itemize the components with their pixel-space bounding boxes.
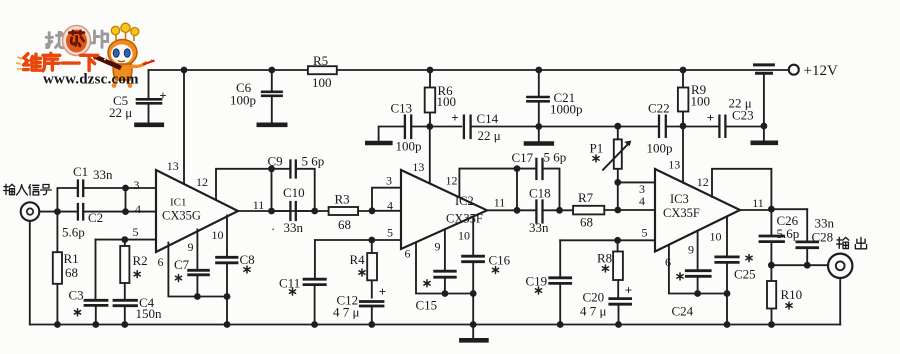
node rail C8	[224, 321, 231, 328]
svg-text:+: +	[625, 283, 632, 298]
svg-text:C14: C14	[477, 111, 499, 126]
capacitor C19	[550, 240, 571, 324]
capacitor C25	[716, 257, 738, 325]
wire IC2 pin13 from bias node	[429, 127, 431, 184]
capacitor C2 5.6p	[78, 204, 83, 220]
wire IC2 pin6 bias	[416, 243, 473, 294]
node C26 output	[768, 262, 775, 269]
svg-text:4 7 μ: 4 7 μ	[333, 305, 360, 320]
svg-text:P1: P1	[590, 141, 604, 156]
node pin5 IC1 R2	[121, 236, 128, 243]
select mark C7	[175, 275, 181, 282]
node bias/P1	[614, 123, 621, 130]
node rail C19	[557, 321, 564, 328]
feedthrough symbol on rail near +12V	[753, 65, 776, 143]
svg-text:C25: C25	[734, 267, 756, 282]
capacitor C18 33n	[536, 201, 542, 223]
wire IC3 output pin11	[740, 208, 807, 211]
svg-text:C7: C7	[174, 257, 190, 272]
capacitor C14 22u electrolytic	[464, 116, 471, 138]
wire IC3 pin9 to C24	[697, 231, 699, 270]
node rail C11	[311, 321, 318, 328]
logo mascot	[93, 23, 155, 88]
logo stamp circle	[63, 26, 91, 56]
node C7 bias	[194, 293, 201, 300]
svg-text:13: 13	[668, 158, 680, 172]
svg-text:IC2: IC2	[455, 194, 474, 208]
select mark C15	[424, 280, 430, 287]
svg-text:10: 10	[212, 228, 224, 242]
svg-text:68: 68	[580, 215, 593, 230]
resistor R1 68	[53, 212, 62, 325]
node rail C25	[724, 321, 731, 328]
svg-text:100: 100	[312, 75, 332, 90]
node C8 bias	[224, 293, 231, 300]
capacitor C8	[217, 257, 237, 324]
svg-text:C23: C23	[732, 108, 754, 123]
svg-text:12: 12	[697, 175, 709, 189]
svg-text:4: 4	[639, 194, 645, 208]
potentiometer P1	[603, 126, 631, 182]
svg-text:C1: C1	[73, 164, 88, 179]
node C28 output	[804, 262, 811, 269]
node pin4 IC1	[122, 208, 129, 215]
select mark P1	[593, 155, 599, 162]
svg-text:R1: R1	[64, 251, 79, 266]
node R7 right	[614, 207, 621, 214]
wire IC2 pin12 to feedback	[459, 169, 517, 198]
svg-text:4: 4	[387, 199, 393, 213]
resistor R7 68	[573, 206, 604, 215]
svg-text:3: 3	[134, 178, 140, 192]
svg-text:C8: C8	[240, 252, 255, 267]
svg-text:C18: C18	[529, 186, 551, 201]
svg-text:5: 5	[642, 226, 648, 240]
wire bottom ground rail	[30, 324, 840, 326]
capacitor C1 33n	[78, 181, 83, 197]
wire IC1 output pin11	[238, 210, 329, 212]
svg-text:10: 10	[458, 229, 470, 243]
wire R7 to IC3 pins 3 4 and P1	[604, 182, 655, 210]
logo text 维库一下 red	[24, 53, 98, 71]
svg-text:www.dzsc.com: www.dzsc.com	[43, 72, 139, 88]
node R3 right	[369, 207, 376, 214]
svg-text:C3: C3	[69, 288, 84, 303]
resistor R5 100	[308, 66, 337, 74]
wire IC3 pin12 feedback loop	[712, 169, 771, 209]
watermark logo top-left	[16, 23, 155, 88]
svg-text:12: 12	[446, 174, 458, 188]
node bias/R6/C13	[426, 123, 433, 130]
svg-text:C2: C2	[88, 210, 103, 225]
svg-text:3: 3	[386, 174, 392, 188]
svg-text:11: 11	[494, 196, 506, 210]
wire IC1 feedback loop verticals	[272, 169, 315, 211]
capacitor C10 33n	[290, 202, 295, 220]
resistor R10	[767, 265, 776, 324]
select mark R8	[602, 265, 608, 272]
op-amp IC3 CX35F	[655, 169, 740, 252]
svg-text:C10: C10	[283, 185, 305, 200]
svg-text:C28: C28	[812, 230, 834, 245]
svg-text:C20: C20	[583, 290, 605, 305]
wire input connector to ground rail	[29, 221, 31, 325]
node fb1 top left	[268, 165, 275, 172]
wire IC2 pin10 to C16	[472, 217, 474, 256]
node rail C12	[368, 321, 375, 328]
node fb3 output	[768, 206, 775, 213]
wire output node row	[771, 264, 827, 266]
node rail C16	[470, 321, 477, 328]
capacitor C28 33n	[797, 209, 818, 265]
svg-text:100p: 100p	[230, 93, 256, 108]
svg-text:IC3: IC3	[670, 192, 689, 206]
wire IC3 pin10 to C25	[726, 217, 728, 256]
logo glyph 片 outlined	[91, 31, 108, 48]
svg-text:100p: 100p	[647, 141, 673, 156]
svg-text:5 6p: 5 6p	[302, 154, 325, 169]
wire R3 to IC2 pins 3 4	[358, 188, 401, 211]
svg-text:C9: C9	[268, 154, 283, 169]
svg-text:22 μ: 22 μ	[478, 128, 501, 143]
svg-text:.: .	[272, 218, 275, 233]
wire IC3 pin5	[560, 239, 655, 241]
capacitor C4 150n	[114, 300, 137, 324]
svg-text:33n: 33n	[815, 216, 835, 231]
svg-text:R5: R5	[313, 53, 328, 68]
select mark C11	[289, 288, 295, 295]
svg-text:5.6p: 5.6p	[62, 225, 85, 240]
node pin5 IC3 R8	[614, 237, 621, 244]
svg-text:+: +	[451, 110, 458, 125]
node rail/C6	[268, 67, 275, 74]
wire IC2 feedback loop verticals	[517, 169, 560, 211]
svg-text:+: +	[707, 110, 714, 125]
svg-text:IC1: IC1	[170, 197, 187, 209]
svg-text:13: 13	[412, 160, 424, 174]
svg-text:5 6p: 5 6p	[544, 150, 567, 165]
node rail/R9	[680, 67, 687, 74]
svg-text:11: 11	[752, 196, 764, 210]
svg-text:C24: C24	[672, 304, 694, 319]
resistor R8	[613, 240, 623, 297]
label 输入信号 input signal	[4, 184, 52, 195]
capacitor C20 4.7u electrolytic	[610, 299, 631, 325]
node bias/C21	[535, 123, 542, 130]
svg-text:R3: R3	[335, 192, 350, 207]
wire IC2 pin9 to C15	[444, 229, 446, 270]
wire bias line C13 to C23 node	[412, 126, 764, 128]
svg-text:11: 11	[253, 198, 265, 212]
wire IC1 pin9 to C7	[196, 230, 198, 270]
wire IC2 pin5	[315, 239, 401, 241]
label 输出 output	[837, 237, 867, 248]
wire C1 C2 to pins 3 4	[84, 188, 157, 212]
svg-text:100p: 100p	[396, 139, 422, 154]
svg-text:CX35F: CX35F	[446, 212, 483, 226]
svg-text:9: 9	[688, 243, 694, 257]
logo glyph 芯 dark red	[69, 31, 84, 46]
input signal label and output label (CJK drawn as paths)	[4, 184, 867, 249]
node input	[54, 208, 61, 215]
svg-text:C15: C15	[416, 298, 438, 313]
svg-text:C13: C13	[391, 101, 413, 116]
wire IC1 pin6 bias	[168, 243, 227, 297]
select mark R4	[359, 269, 365, 276]
resistor R9 100	[678, 70, 689, 126]
node C24 bias	[694, 290, 701, 297]
capacitor C22 100p	[659, 116, 666, 137]
wire IC1 pin12 to feedback	[216, 169, 272, 200]
capacitor C11	[304, 240, 325, 325]
op-amp IC2 CX35F	[401, 170, 487, 249]
node rail R10	[768, 321, 775, 328]
capacitor C17 5.6p	[536, 159, 542, 179]
svg-text:1000p: 1000p	[550, 102, 583, 117]
svg-text:+12V: +12V	[804, 63, 838, 79]
node rail R1	[54, 321, 61, 328]
output connector	[828, 254, 852, 278]
node rail/IC1 pin13	[181, 67, 188, 74]
svg-text:9: 9	[435, 240, 441, 254]
terminal +12V	[789, 65, 799, 75]
svg-text:R4: R4	[350, 252, 366, 267]
wire IC2 output pin11	[487, 209, 573, 211]
svg-text:R8: R8	[597, 251, 612, 266]
node rail/C21	[535, 67, 542, 74]
ground symbol below rail at C16 line	[461, 325, 486, 341]
svg-text:6: 6	[665, 255, 671, 269]
select mark C19	[535, 287, 541, 294]
svg-text:C22: C22	[648, 101, 670, 116]
resistor R4	[367, 240, 377, 298]
capacitor C12 4.7u electrolytic	[360, 302, 383, 325]
node bias/C23 ground	[761, 123, 768, 130]
logo glyph 找 outlined	[46, 32, 63, 48]
wire +12V top rail	[149, 69, 789, 71]
node rail/R6	[427, 67, 434, 74]
svg-text:CX35F: CX35F	[663, 206, 700, 220]
node fb1 bottom right	[311, 208, 318, 215]
svg-text:4 7 μ: 4 7 μ	[580, 304, 607, 319]
node P1 bottom	[614, 179, 621, 186]
node C15 bias	[442, 290, 449, 297]
svg-text:C19: C19	[526, 274, 548, 289]
svg-text:6: 6	[158, 255, 164, 269]
select mark R10	[786, 302, 792, 309]
resistor R3 68	[329, 207, 359, 215]
svg-text:5: 5	[133, 225, 139, 239]
svg-text:10: 10	[710, 230, 722, 244]
select mark C3	[74, 309, 80, 316]
capacitor C7	[189, 270, 209, 296]
wire IC3 pin6 bias	[669, 245, 727, 294]
logo highlight streaks	[16, 57, 22, 69]
svg-text:C11: C11	[279, 276, 300, 291]
svg-text:100: 100	[437, 94, 457, 109]
svg-text:C17: C17	[512, 150, 534, 165]
svg-text:4: 4	[135, 202, 141, 216]
node fb1 bottom left	[268, 208, 275, 215]
capacitor C3	[85, 240, 107, 325]
resistor R2	[120, 240, 129, 300]
node pin3 IC1	[122, 185, 129, 192]
node fb2 top left	[514, 165, 521, 172]
svg-text:9: 9	[188, 240, 194, 254]
capacitor C6 100p rail decoupling	[259, 70, 285, 125]
node fb2 bottom right	[556, 207, 563, 214]
capacitor C21 1000p	[526, 70, 552, 144]
capacitor C24	[686, 271, 710, 294]
select mark R2	[134, 271, 140, 278]
node C16 bias	[470, 290, 477, 297]
svg-text:R2: R2	[133, 253, 148, 268]
capacitor C15	[435, 271, 456, 293]
svg-text:6: 6	[405, 247, 411, 261]
svg-text:+: +	[379, 284, 386, 299]
select mark C25	[746, 255, 752, 262]
wire IC3 pin13 from R9 node	[682, 126, 684, 183]
svg-text:68: 68	[338, 217, 351, 232]
svg-text:22 μ: 22 μ	[109, 105, 132, 120]
node rail C20	[615, 321, 622, 328]
svg-text:R7: R7	[578, 190, 594, 205]
select mark C16	[492, 267, 498, 274]
svg-text:CX35G: CX35G	[162, 209, 201, 223]
svg-text:68: 68	[65, 265, 78, 280]
svg-text:+: +	[159, 88, 166, 103]
capacitor C5 22u rail decoupling	[137, 70, 162, 125]
wire IC1 pin10 to C8	[226, 216, 228, 257]
svg-text:12: 12	[196, 175, 208, 189]
wire IC1 pin5	[96, 239, 157, 241]
input connector	[21, 202, 40, 221]
svg-text:C16: C16	[489, 253, 511, 268]
node pin5 IC2 R4	[368, 237, 375, 244]
node fb2 bottom left	[514, 207, 521, 214]
svg-text:R10: R10	[781, 287, 803, 302]
capacitor C13 100p with ground	[367, 116, 411, 144]
svg-text:100: 100	[691, 94, 711, 109]
svg-text:13: 13	[167, 159, 179, 173]
wire IC1 pin13 from rail	[183, 70, 185, 184]
capacitor C16	[463, 256, 484, 324]
svg-text:150n: 150n	[136, 306, 163, 321]
wire input to C1 C2	[39, 188, 77, 212]
wire output connector to ground rail	[839, 278, 841, 324]
select mark C8	[244, 266, 250, 273]
resistor R6 100	[425, 70, 436, 127]
svg-text:5.6p: 5.6p	[777, 226, 800, 241]
node rail C3	[92, 321, 99, 328]
node bias/R9	[680, 123, 687, 130]
svg-text:33n: 33n	[529, 220, 549, 235]
op-amp IC1 CX35G	[156, 170, 238, 252]
capacitor C26 5.6p	[760, 209, 784, 265]
node rail C4	[121, 321, 128, 328]
capacitor C9 5.6p	[290, 161, 295, 178]
select mark C24	[677, 273, 683, 280]
node C25 bias	[724, 290, 731, 297]
capacitor C23 22u electrolytic	[719, 116, 725, 137]
svg-text:33n: 33n	[93, 167, 113, 182]
svg-text:5: 5	[387, 226, 393, 240]
svg-text:33n: 33n	[284, 220, 304, 235]
